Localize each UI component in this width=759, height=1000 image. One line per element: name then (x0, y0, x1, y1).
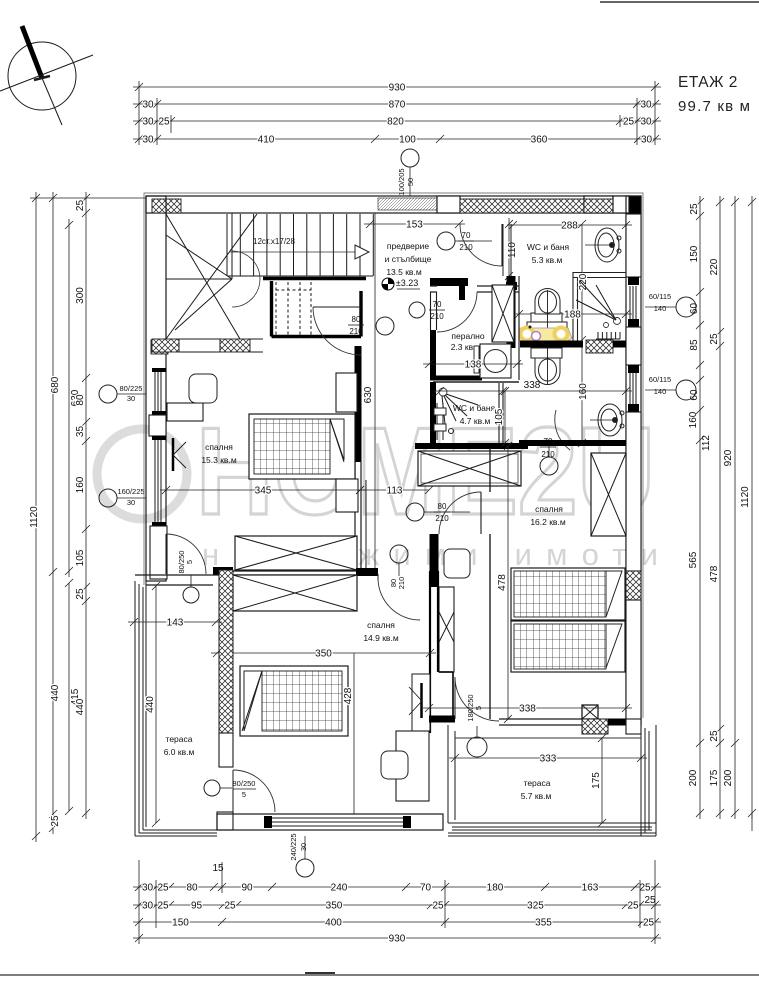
staircase diagonal guides (166, 214, 257, 339)
level mark +3.23 (382, 278, 420, 290)
svg-text:100: 100 (399, 135, 416, 146)
svg-text:345: 345 (255, 486, 272, 497)
dimension 870 (133, 100, 661, 108)
dimension 105 wc47 (501, 387, 509, 447)
svg-text:30: 30 (127, 394, 135, 403)
svg-text:440: 440 (145, 696, 156, 713)
toilet 1 (527, 289, 567, 331)
dimension 333 (449, 754, 647, 762)
svg-text:30: 30 (142, 100, 154, 111)
terrace6 divider wall hatch (219, 570, 233, 733)
terrace6 door arc lower (233, 770, 275, 812)
svg-text:138: 138 (465, 360, 482, 371)
svg-text:25: 25 (157, 883, 169, 894)
svg-text:30: 30 (640, 100, 652, 111)
svg-text:5: 5 (185, 560, 194, 564)
left wall window 80/225 (155, 372, 161, 411)
svg-text:680: 680 (50, 376, 61, 393)
svg-text:60/115: 60/115 (649, 375, 671, 384)
svg-text:25: 25 (432, 901, 444, 912)
bed 16.2 lower (511, 621, 625, 672)
stair void dashed projection (276, 282, 311, 338)
dimension 153 (364, 220, 465, 228)
laundry door arc (437, 292, 477, 332)
svg-text:80: 80 (75, 394, 86, 406)
window marker 80/225 (99, 385, 117, 403)
dimension right chain col2 (716, 196, 724, 819)
svg-text:440: 440 (50, 684, 61, 701)
svg-text:35: 35 (75, 426, 86, 438)
svg-text:14.9 кв.м: 14.9 кв.м (363, 633, 399, 643)
right wall hatch block (626, 571, 641, 600)
svg-text:60/115: 60/115 (649, 292, 671, 301)
staircase direction line and arrow (230, 251, 355, 253)
svg-text:и стълбище: и стълбище (385, 254, 432, 264)
armchair bedroom16.2 (444, 549, 470, 578)
svg-text:30: 30 (127, 498, 135, 507)
svg-text:WC и баня: WC и баня (527, 242, 570, 252)
dimension 188 (513, 310, 632, 318)
right wall pier mid (626, 327, 641, 365)
bed 15.3 pillow (330, 419, 344, 460)
door marker 80/210 b162 (406, 503, 424, 521)
svg-text:210: 210 (435, 514, 449, 523)
right wall window 60/115 lower (630, 373, 636, 404)
WC 5.3 left wall (503, 224, 511, 276)
svg-text:ЕТАЖ 2: ЕТАЖ 2 (678, 74, 738, 91)
terrace5.7 railing bottom (448, 823, 656, 836)
shower room walls (573, 272, 626, 347)
radiator 15.3 (172, 438, 175, 471)
bedroom14.9 door arc (378, 578, 420, 620)
laundry top wall with door opening (430, 286, 519, 292)
corridor black wall below wardrobe (430, 534, 439, 587)
right wall pier lower (626, 412, 641, 571)
svg-text:180: 180 (487, 883, 504, 894)
svg-text:110: 110 (507, 242, 518, 258)
dimension 220 shower (578, 220, 586, 447)
svg-text:13.5 кв.м: 13.5 кв.м (386, 267, 422, 277)
right wall window jamb (628, 277, 639, 285)
staircase treads (227, 214, 373, 276)
svg-text:565: 565 (688, 551, 699, 568)
svg-text:95: 95 (191, 901, 203, 912)
left wall hatch block 1 (151, 340, 168, 354)
svg-text:5: 5 (242, 790, 246, 799)
svg-text:80: 80 (438, 502, 447, 511)
svg-text:150: 150 (172, 918, 189, 929)
svg-text:325: 325 (527, 901, 544, 912)
dimension right chain col3 (731, 196, 739, 819)
dimension 930 total (133, 83, 661, 91)
bed 16.2 upper (511, 568, 625, 620)
dimension 350 (211, 649, 436, 657)
shower comb (596, 332, 620, 339)
purple ring (532, 332, 541, 341)
svg-text:175: 175 (591, 772, 602, 789)
top wall hatch left corner (152, 199, 181, 213)
svg-text:30: 30 (142, 901, 154, 912)
svg-text:210: 210 (397, 577, 406, 590)
svg-text:15: 15 (212, 863, 224, 874)
terrace6 divider wall lower pier (219, 733, 233, 767)
corridor dim 630 note (374, 213, 376, 571)
dimension 820 (133, 117, 661, 125)
svg-text:105: 105 (75, 549, 86, 566)
terrace6 door arc (165, 534, 167, 574)
black dot (529, 326, 532, 329)
corridor left wall (355, 346, 362, 462)
terrace6 corner wall bottom (217, 812, 233, 830)
north arrow (0, 26, 93, 125)
dimension bottom row3 (133, 918, 661, 926)
window marker 160/225 (99, 489, 117, 507)
wardrobe 16.2 (591, 453, 626, 536)
dimension 175 terr (598, 734, 606, 827)
terrace6 railing bottom (135, 830, 217, 836)
dimension 113 (356, 486, 433, 494)
window marker 60/115 upper (676, 297, 696, 317)
svg-text:112: 112 (701, 435, 712, 451)
chair 14.9 (381, 751, 408, 779)
door hall-stairs arc (313, 306, 361, 308)
svg-text:6.0 кв.м: 6.0 кв.м (164, 747, 195, 757)
right exterior wall (626, 196, 641, 725)
outer boundary thin line (144, 193, 643, 718)
svg-text:25: 25 (709, 730, 720, 742)
svg-text:25: 25 (75, 588, 86, 600)
radiator 16.2 (582, 705, 598, 719)
dimension 415 left (65, 579, 73, 815)
dimension 345 (160, 486, 366, 494)
dimension bottom row1 (133, 883, 661, 891)
svg-text:80/250: 80/250 (233, 779, 256, 788)
WC4.7 shower fan (439, 388, 478, 424)
WC5.3 door arc (460, 224, 502, 266)
window marker 60/115 lower (676, 380, 696, 400)
svg-text:спалня: спалня (367, 620, 395, 630)
svg-text:25: 25 (627, 901, 639, 912)
svg-text:70: 70 (420, 883, 432, 894)
svg-text:163: 163 (582, 883, 599, 894)
WC4.7 top wall (433, 381, 519, 383)
dimension 15 raised (221, 862, 223, 893)
left extension lines (30, 197, 146, 199)
svg-text:предверие: предверие (387, 241, 429, 251)
bottom window 240/225 (272, 818, 403, 826)
svg-text:478: 478 (709, 565, 720, 582)
hall bottom black wall (430, 278, 468, 300)
svg-text:перално: перално (451, 331, 484, 341)
svg-text:220: 220 (578, 273, 589, 290)
bedroom14.9 right wall (429, 571, 431, 733)
shower fan (576, 281, 621, 328)
svg-text:25: 25 (158, 117, 170, 128)
svg-text:630: 630 (363, 386, 374, 403)
balcony door arc 180/250 (454, 677, 456, 719)
terrace6 top wall (135, 574, 233, 576)
door marker 80/250 lower (204, 780, 220, 796)
dimension 138 (423, 360, 523, 368)
svg-text:30: 30 (142, 883, 154, 894)
svg-text:25: 25 (643, 918, 655, 929)
window marker 240/225 bottom (296, 859, 314, 877)
svg-text:25: 25 (75, 200, 86, 212)
chair 15.3 (189, 374, 217, 403)
WC4.7 bottom wall (415, 443, 528, 449)
svg-text:930: 930 (389, 934, 406, 945)
svg-text:820: 820 (387, 117, 404, 128)
window marker circle 100/205 (401, 149, 419, 167)
svg-text:920: 920 (723, 449, 734, 466)
laundry bottom wall (430, 376, 482, 381)
door marker 80/210 b149 (390, 545, 408, 563)
terrace5.7 floor line (455, 737, 641, 739)
tall cabinet corridor south (439, 587, 454, 672)
svg-text:30: 30 (142, 135, 154, 146)
svg-text:240/225: 240/225 (289, 833, 298, 860)
svg-text:930: 930 (389, 83, 406, 94)
dimension 1120 left (32, 192, 40, 842)
svg-text:99.7 кв м: 99.7 кв м (678, 98, 751, 115)
svg-text:200: 200 (723, 769, 734, 786)
washing machine (480, 344, 511, 378)
svg-text:30: 30 (299, 843, 308, 851)
svg-text:113: 113 (387, 486, 403, 497)
svg-text:210: 210 (459, 243, 473, 252)
svg-text:15.3 кв.м: 15.3 кв.м (201, 455, 237, 465)
svg-text:153: 153 (406, 220, 423, 231)
stair void walls (263, 279, 366, 337)
yellow sink right (555, 328, 568, 341)
svg-text:355: 355 (535, 918, 552, 929)
WC4.7 tub faucet (434, 403, 454, 440)
dimension 630 left (65, 219, 73, 577)
door marker 70/210 laundry (409, 302, 425, 318)
left exterior wall (146, 196, 166, 581)
corridor right wall upper (430, 292, 432, 330)
wardrobe hall (between WC4.7 and bedroom16.2) (418, 451, 521, 486)
svg-text:5.7 кв.м: 5.7 кв.м (521, 791, 552, 801)
top-right corner black block (629, 196, 641, 218)
svg-text:5.3 кв.м: 5.3 кв.м (532, 255, 563, 265)
svg-text:тераса: тераса (166, 734, 193, 744)
left wall pier lower (150, 526, 167, 579)
svg-text:143: 143 (167, 618, 184, 629)
svg-text:тераса: тераса (524, 778, 551, 788)
bed 15.3 (249, 414, 355, 479)
left wall window 160/225 (155, 440, 161, 522)
svg-text:870: 870 (389, 100, 406, 111)
door marker 70/210 wc lower (540, 457, 558, 475)
svg-text:240: 240 (331, 883, 348, 894)
svg-text:спалня: спалня (205, 442, 233, 452)
svg-text:12ст.х17/28: 12ст.х17/28 (253, 237, 295, 246)
svg-text:140: 140 (654, 304, 667, 313)
nightstand lower (336, 479, 358, 512)
dimension extension lines bottom (138, 860, 140, 944)
right wall pier top (626, 214, 641, 277)
yellow vanity counter (519, 328, 572, 341)
svg-text:30: 30 (142, 117, 154, 128)
staircase winder arc (232, 251, 260, 307)
nightstand upper (336, 373, 357, 412)
svg-text:410: 410 (258, 135, 275, 146)
svg-text:350: 350 (326, 901, 343, 912)
dimension 478 in (504, 442, 512, 723)
staircase radial treads (166, 213, 232, 330)
svg-text:288: 288 (561, 221, 578, 232)
bed 14.9 (240, 666, 348, 736)
top wall pier right (613, 196, 629, 213)
divider wall WC5.3/WC lower (520, 341, 583, 348)
svg-text:478: 478 (497, 574, 508, 591)
desk 14.9 (396, 731, 429, 801)
desk 15.3 (167, 403, 203, 421)
top wall window 153 (378, 200, 437, 208)
left wall pier (149, 415, 166, 436)
svg-text:1120: 1120 (740, 486, 751, 508)
lower WC bottom wall (519, 440, 626, 446)
dimension right chain inner (696, 196, 704, 819)
svg-text:25: 25 (50, 815, 61, 827)
top wall pier (437, 196, 460, 213)
svg-text:90: 90 (241, 883, 253, 894)
svg-text:16.2 кв.м: 16.2 кв.м (530, 517, 566, 527)
svg-text:160/225: 160/225 (117, 487, 144, 496)
page top-right border line (600, 1, 759, 3)
svg-text:300: 300 (75, 287, 86, 304)
svg-text:338: 338 (524, 380, 541, 391)
svg-text:188: 188 (564, 310, 581, 321)
svg-text:210: 210 (541, 450, 555, 459)
door marker circle 180/250 (467, 737, 487, 757)
right wall window 60/115 upper (630, 286, 636, 319)
dimension 410/100/360 (133, 135, 661, 143)
svg-text:25: 25 (644, 895, 656, 906)
right wall window jamb2 (628, 365, 639, 373)
svg-text:25: 25 (157, 901, 169, 912)
svg-text:85: 85 (689, 339, 700, 351)
WC4.7 left wall (430, 382, 436, 443)
svg-text:400: 400 (325, 918, 342, 929)
svg-text:150: 150 (689, 245, 700, 262)
svg-text:4.7 кв.м: 4.7 кв.м (460, 416, 491, 426)
svg-text:175: 175 (709, 769, 720, 786)
washbasin lower WC (590, 404, 624, 436)
stairwell bottom wall lines (179, 339, 220, 352)
bedroom16.2 left wall (489, 448, 491, 719)
dimension left chain (82, 192, 90, 819)
yellow sink left (521, 328, 534, 341)
svg-text:30: 30 (640, 117, 652, 128)
svg-text:25: 25 (224, 901, 236, 912)
top wall hatch right (460, 199, 584, 213)
dim 428 vertical (353, 653, 355, 814)
tall cabinet with X (492, 285, 514, 342)
svg-text:220: 220 (709, 258, 720, 275)
door marker 70/210 hall top (437, 232, 455, 250)
svg-text:210: 210 (349, 327, 363, 336)
svg-text:80: 80 (352, 315, 361, 324)
right extension (751, 813, 753, 831)
svg-text:160: 160 (75, 476, 86, 493)
WC4.7 right wall (498, 383, 500, 443)
dimension bottom row2 (133, 901, 661, 909)
laundry left wall (430, 330, 436, 380)
svg-text:338: 338 (519, 704, 536, 715)
dimension 288 (507, 221, 632, 229)
svg-text:428: 428 (343, 687, 354, 704)
svg-text:160: 160 (688, 411, 699, 428)
wardrobe 15.3 bottom (235, 536, 357, 570)
bed 14.9 pillow (244, 671, 262, 731)
washbasin WC5.3 (585, 228, 621, 262)
svg-text:30: 30 (641, 135, 653, 146)
svg-text:140: 140 (654, 387, 667, 396)
svg-text:80/225: 80/225 (120, 384, 143, 393)
stairwell bottom wall hatches (152, 339, 179, 352)
terrace6 railing left (135, 581, 146, 836)
svg-text:1120: 1120 (29, 506, 40, 528)
svg-text:25: 25 (639, 883, 651, 894)
right wall pier bottom (626, 600, 641, 725)
svg-text:80: 80 (186, 883, 198, 894)
dimension right chain outer (748, 196, 756, 819)
svg-text:333: 333 (540, 754, 557, 765)
dimension 110 (505, 218, 513, 282)
watermark logo circle (97, 429, 187, 519)
toilet 2 (531, 348, 562, 385)
svg-text:70: 70 (433, 300, 442, 309)
wardrobe 14.9 top (233, 575, 357, 611)
svg-text:100/205: 100/205 (397, 168, 406, 195)
dimension 338 bottom (423, 704, 632, 712)
svg-text:25: 25 (689, 203, 700, 215)
dimension extension lines top (138, 81, 140, 145)
svg-text:350: 350 (315, 649, 332, 660)
terrace5.7 outline (448, 725, 656, 836)
dimension bottom row4 (133, 934, 661, 942)
radiator bedroom14.9 (412, 674, 430, 731)
svg-text:105: 105 (494, 408, 505, 425)
svg-text:спалня: спалня (535, 504, 563, 514)
bottom wall bedroom14.9 (217, 814, 443, 830)
dimension 338 mid (434, 387, 632, 395)
lower WC left wall (518, 276, 520, 380)
svg-text:440: 440 (75, 698, 86, 715)
top wall band (146, 196, 641, 213)
svg-text:±3.23: ±3.23 (396, 278, 418, 288)
page bottom border line (0, 974, 759, 976)
svg-text:360: 360 (531, 135, 548, 146)
bedroom16.2 bottom wall (429, 716, 455, 723)
svg-text:210: 210 (430, 312, 444, 321)
dimension 143 (128, 618, 222, 626)
lower WC door arc (555, 410, 570, 450)
svg-text:25: 25 (623, 117, 635, 128)
door marker 80/210 hall (376, 317, 394, 335)
wall between bedrooms (233, 570, 365, 572)
bedroom16.2 door arc (480, 492, 482, 534)
svg-text:200: 200 (688, 769, 699, 786)
svg-text:50: 50 (406, 178, 415, 186)
dimension 440 terr (152, 582, 160, 827)
svg-text:25: 25 (709, 333, 720, 345)
dimension 680/440 left (49, 192, 57, 834)
